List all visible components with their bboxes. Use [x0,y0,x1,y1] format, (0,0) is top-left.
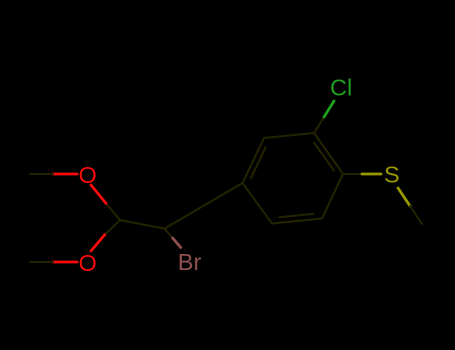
wire acetal CH to top O : carbon half [106,203,120,220]
svg-text:Br: Br [178,249,202,275]
wire ring A to Cl : carbon half [314,117,324,133]
benzene ring edge E-F [243,138,265,183]
wire acetal CH to bottom O : oxygen half [91,235,105,251]
svg-text:Cl: Cl [330,75,352,101]
benzene ring edge C-D [272,219,322,224]
wire ring A to Cl : chlorine half [324,101,334,117]
benzene ring edge A-B [314,133,343,174]
wire S to methyl : sulfur half [398,188,410,206]
wire ring B to S : sulfur half [362,173,381,176]
wire CHBr to Br : bromine half [173,238,181,247]
wire ring B to S : carbon half [343,173,362,175]
benzene ring double bond inner line A-B [314,143,334,171]
wire acetal CH to bottom O : carbon half [105,220,120,235]
wire bottom O to methyl : oxygen half [53,261,77,264]
wire CHBr to acetal CH [120,220,165,229]
wire CHBr to Br : carbon half [165,229,173,238]
wire acetal CH to top O : oxygen half [91,185,106,203]
wire ring E to CHBr carbon [165,183,243,229]
svg-text:O: O [79,250,97,276]
benzene ring double bond inner line C-D [280,214,314,217]
wire top O to methyl : carbon half [30,173,53,175]
wire S to methyl : carbon half [410,206,422,224]
benzene ring edge D-E [243,183,273,224]
benzene ring edge B-C [322,174,343,219]
benzene ring edge F-A [264,133,314,138]
wire bottom O to methyl : carbon half [30,261,53,263]
wire top O to methyl : oxygen half [53,173,77,176]
benzene ring double bond inner line E-F [251,148,266,179]
svg-text:S: S [384,162,400,188]
svg-text:O: O [79,162,97,188]
